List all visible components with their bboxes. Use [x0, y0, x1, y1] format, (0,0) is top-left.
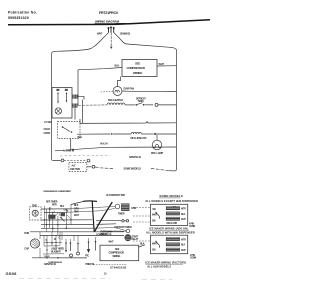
junction on neutral [72, 149, 74, 151]
wire: fan feed dashes [100, 90, 113, 93]
wire dashes to alt timer [64, 159, 86, 161]
wire: connector stub [75, 100, 83, 124]
svg-text:WHT: WHT [109, 240, 115, 243]
svg-text:MTR: MTR [52, 204, 57, 207]
label DEF TIMER MTR [46, 200, 58, 206]
svg-text:SEE: SEE [135, 62, 140, 66]
svg-text:EVAP. FAN: EVAP. FAN [124, 88, 135, 91]
wire: under box2 [93, 264, 126, 266]
defrost heater R1 coil [78, 103, 136, 105]
cold control box S2 [58, 122, 81, 139]
bottom cluster extra labels [44, 232, 74, 264]
timer cam switch [48, 215, 64, 222]
wires to relay [95, 228, 126, 232]
caption under box2 [145, 261, 186, 269]
harness thick bundle [83, 201, 112, 231]
svg-text:MKR: MKR [152, 215, 157, 217]
svg-text:MKR: MKR [152, 244, 157, 246]
wire: middle rail [80, 119, 177, 123]
compressor note box [122, 60, 157, 77]
wire: defrost rail to right rail [158, 104, 177, 106]
label COMP OVLD [100, 230, 112, 236]
svg-text:WTR: WTR [181, 209, 186, 211]
svg-text:BLK: BLK [181, 245, 186, 247]
compressor terminal cluster [43, 232, 64, 258]
terminal pair [96, 220, 129, 225]
freezer lamp DS1 [152, 135, 162, 150]
svg-text:AUX. W: AUX. W [100, 143, 108, 146]
svg-text:DEF. TMR: DEF. TMR [70, 168, 80, 171]
splice terminal [155, 103, 158, 106]
svg-text:BLK: BLK [78, 136, 83, 139]
timer aux wires [41, 206, 72, 232]
wire: neutral bottom rail [55, 147, 177, 151]
svg-text:TIMER: TIMER [118, 212, 125, 215]
svg-text:CONN: CONN [189, 226, 196, 228]
option box 1 [150, 204, 187, 225]
svg-text:CONT.: CONT. [44, 131, 51, 135]
timer terminal labels [50, 206, 69, 217]
mullion heater R2 [77, 132, 177, 135]
svg-text:ICE MAKER WIRING (ADD ON): ICE MAKER WIRING (ADD ON) [149, 227, 188, 231]
light switch box S1 [52, 88, 72, 119]
svg-text:BLK: BLK [115, 64, 120, 68]
svg-text:ALT. DEFROST TMR: ALT. DEFROST TMR [106, 194, 125, 197]
compressor note box 2 [100, 245, 139, 261]
wire dashes some models left [95, 167, 113, 169]
svg-text:S7948521B: S7948521B [110, 265, 127, 269]
wire color label column [74, 204, 80, 217]
start relay motor circle [125, 234, 132, 241]
wire color labels bottom [51, 247, 64, 253]
label 4 pin conn right of box1 [189, 223, 196, 229]
terminal [61, 159, 64, 162]
svg-text:ORG: ORG [64, 209, 69, 211]
defrost termination thermostat S3 [136, 103, 153, 106]
terminal [87, 159, 90, 162]
svg-text:WIRING: WIRING [113, 255, 121, 258]
wire: drop from compressor feed [77, 70, 79, 105]
label START RELAY [132, 236, 139, 242]
svg-text:BLK: BLK [60, 206, 65, 208]
crease dashed line [60, 154, 110, 157]
wire: compressor box right lead [157, 65, 177, 67]
svg-text:FRT21PRC0: FRT21PRC0 [99, 11, 118, 15]
svg-text:GS98: GS98 [6, 271, 18, 276]
svg-text:WHT: WHT [97, 32, 103, 36]
svg-text:RELAY: RELAY [132, 238, 139, 241]
svg-text:TERM.: TERM. [138, 101, 145, 103]
svg-text:GRN/YEL W: GRN/YEL W [129, 156, 142, 159]
svg-text:SOME MODELS: SOME MODELS [124, 167, 142, 171]
wire dashes some models right [151, 168, 169, 170]
svg-text:ALL MODELS EXCEPT I&W DISPENSE: ALL MODELS EXCEPT I&W DISPENSER [145, 199, 198, 203]
header rule [8, 20, 210, 25]
start relay switches [85, 237, 96, 258]
svg-text:MULLION HTR.: MULLION HTR. [131, 136, 148, 140]
terminal [92, 165, 95, 168]
svg-text:LT. SW: LT. SW [44, 120, 52, 124]
header title WIRING DIAGRAM [95, 20, 128, 24]
svg-text:REFRIGERATOR COMPARTMENT: REFRIGERATOR COMPARTMENT [44, 190, 72, 193]
svg-text:ICE MAKER WIRING (FACTORY): ICE MAKER WIRING (FACTORY) [145, 261, 186, 265]
wire: cold control drop [70, 139, 72, 150]
wire: cord right lead to right rail [122, 41, 177, 51]
svg-text:MOLD HTR: MOLD HTR [167, 223, 178, 225]
wire: alt timer lead [87, 166, 92, 168]
svg-text:WIRING: WIRING [133, 71, 142, 75]
connector block J2 [73, 104, 78, 108]
wire: compressor box left lead [78, 68, 122, 70]
wire: alt defrost branch [52, 159, 61, 160]
ground wire GRN with terminal [110, 33, 113, 49]
FF lamp inside switch box [55, 108, 61, 114]
title some models underlined [159, 194, 183, 198]
connector plug block [115, 203, 129, 211]
svg-text:WHT: WHT [159, 62, 165, 66]
defrost timer motor M2 [30, 204, 41, 220]
wires timer to connector [66, 206, 115, 212]
wires to option boxes [133, 208, 150, 242]
svg-text:RUN: RUN [24, 232, 29, 235]
svg-text:M: M [54, 239, 56, 241]
svg-text:WHT: WHT [74, 214, 80, 217]
wire: bottom bus [32, 257, 87, 259]
svg-text:WHT: WHT [181, 250, 186, 252]
svg-text:5995351029: 5995351029 [8, 16, 29, 20]
wire to harness head [71, 202, 83, 205]
svg-text:CONN: CONN [190, 258, 197, 260]
evaporator fan motor M1 [113, 87, 122, 96]
relay terminal [126, 229, 130, 233]
svg-text:ALL MODELS WITH I&W DISPENSER: ALL MODELS WITH I&W DISPENSER [146, 230, 195, 234]
svg-text:OVERLOAD: OVERLOAD [100, 230, 112, 233]
svg-text:GRN/YEL W: GRN/YEL W [44, 263, 57, 266]
svg-text:CAP: CAP [24, 248, 29, 251]
svg-text:BLK: BLK [181, 214, 186, 216]
svg-text:COMPRESSOR: COMPRESSOR [127, 66, 145, 70]
label BLK box2 [139, 242, 145, 247]
svg-text:RELAY: RELAY [101, 233, 108, 236]
caption under box1 [149, 227, 189, 231]
wire: left rail [51, 54, 53, 159]
overload protector switches [40, 232, 80, 258]
alt defrost timer box [69, 162, 87, 171]
svg-text:L. GRN W: L. GRN W [64, 149, 75, 153]
wire: cord left lead to left rail [52, 39, 103, 55]
wire: right rail [169, 51, 177, 171]
svg-text:PTC: PTC [85, 256, 90, 258]
run capacitor C1 [24, 232, 39, 251]
svg-text:Y/RED W: Y/RED W [85, 263, 95, 266]
wire: compressor box to fan [118, 77, 121, 87]
connector block J1 [73, 95, 78, 99]
label 4 pin conn right of box2 [190, 254, 197, 260]
svg-text:WHT: WHT [181, 219, 186, 221]
label COLD CONT [44, 127, 51, 135]
footer dashes left [19, 277, 110, 279]
svg-text:COLD: COLD [44, 127, 51, 131]
svg-text:SOME MODELS: SOME MODELS [159, 194, 183, 198]
footer dashes right [142, 278, 173, 280]
wire: fan to right rail [122, 90, 177, 92]
timer contact web wires [30, 204, 124, 235]
svg-text:FRZ. LAMP: FRZ. LAMP [151, 151, 164, 155]
option box 2 [150, 235, 187, 254]
svg-text:DEF. HEATER: DEF. HEATER [108, 98, 123, 102]
svg-text:115V(60HZ): 115V(60HZ) [120, 34, 131, 36]
svg-text:ALL I&W MODELS: ALL I&W MODELS [147, 265, 171, 269]
power cord plug P1 [103, 26, 122, 40]
header publication number [8, 11, 37, 20]
svg-text:Publication No.: Publication No. [8, 11, 37, 15]
svg-text:WTR: WTR [181, 239, 186, 241]
